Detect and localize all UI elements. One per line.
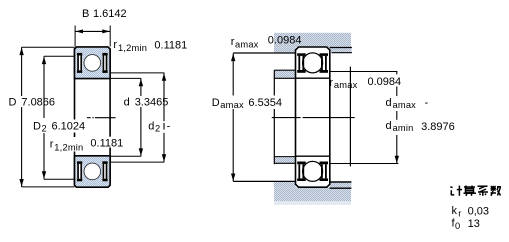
label r amax 0.0984 (middle) (329, 76, 401, 90)
shaft slab bottom (gray) (274, 187, 351, 201)
centerline (right diagram) (272, 117, 355, 119)
svg-text:7.0866: 7.0866 (21, 97, 55, 109)
svg-text:-: - (425, 97, 429, 109)
svg-text:r: r (329, 77, 333, 89)
label k_r 0,03 (452, 205, 490, 218)
svg-text:6.1024: 6.1024 (52, 121, 86, 133)
svg-text:0.0984: 0.0984 (268, 35, 302, 47)
shaft bottom shoulder right (330, 183, 352, 188)
housing shoulder right (330, 47, 352, 53)
dimension d extension lines (110, 78, 141, 156)
svg-text:13: 13 (468, 218, 480, 230)
svg-text:B: B (82, 8, 89, 20)
svg-text:k: k (452, 205, 458, 217)
svg-text:2: 2 (42, 124, 47, 134)
算 (464, 186, 477, 196)
svg-text:r: r (458, 208, 461, 218)
svg-text:amax: amax (235, 40, 259, 50)
svg-text:0: 0 (455, 221, 460, 231)
seal left, bottom section (left diagram) (77, 161, 83, 181)
seal left, top section (left diagram) (77, 53, 83, 73)
top cross-section filled (left diagram) (75, 47, 111, 79)
svg-text:6.5354: 6.5354 (248, 97, 282, 109)
dimension d2 extension lines (110, 73, 164, 162)
d_a extension line top (330, 71, 398, 73)
shaft left face line (273, 70, 275, 164)
svg-text:D: D (212, 97, 220, 109)
svg-text:0.1181: 0.1181 (154, 40, 187, 52)
svg-text:r: r (50, 139, 54, 151)
bottom cross-section filled (left diagram) (75, 156, 111, 187)
dimension Damax line with arrows (231, 53, 235, 181)
dimension d_a line with arrow (395, 72, 399, 164)
centerline (left diagram) (87, 117, 116, 119)
ball top (right diagram) (303, 53, 323, 73)
dimension B extension lines (75, 26, 110, 47)
dimension D line with arrows (19, 47, 23, 187)
seal right, bottom section (left diagram) (102, 161, 108, 181)
label Damax 6.5354 (212, 97, 282, 110)
label r1,2min 0.1181 (top) (113, 39, 187, 53)
label d amax - (386, 97, 429, 110)
label r1,2min 0.1181 (bottom) (49, 137, 124, 153)
label r amax 0.0984 (top left) (231, 35, 302, 50)
seal right, top section (right diagram) (320, 53, 329, 73)
svg-text:amax: amax (393, 100, 417, 110)
svg-text:1,2min: 1,2min (118, 43, 147, 53)
bearing outline (right diagram) (296, 47, 330, 187)
label 计算系数 (calculation factors, hand-drawn glyphs) (450, 186, 501, 196)
系 (478, 186, 489, 196)
svg-text:amax: amax (220, 100, 244, 110)
housing shoulder left bottom edge + Damax top extension line (233, 52, 296, 54)
svg-text:r: r (113, 39, 117, 51)
label D2 6.1024 (32, 120, 85, 134)
dimension d line with arrows (139, 78, 143, 156)
svg-text:2: 2 (155, 124, 160, 134)
seal right, bottom section (right diagram) (320, 162, 329, 182)
shaft shoulder bar top-left (gray) (274, 70, 295, 78)
svg-text:0.0984: 0.0984 (368, 76, 402, 88)
svg-text:1.6142: 1.6142 (93, 8, 127, 20)
svg-text:0.1181: 0.1181 (90, 137, 123, 149)
housing shoulder left (274, 47, 296, 53)
label d amin 3.8976 (386, 120, 455, 133)
label d 3.3465 (122, 96, 168, 109)
svg-text:d: d (386, 120, 392, 132)
svg-text:d: d (148, 121, 154, 133)
ball top (left diagram) (84, 55, 101, 72)
svg-text:D: D (9, 97, 17, 109)
ball bottom (right diagram) (303, 161, 323, 181)
shaft right face line (349, 67, 351, 167)
svg-text:0,03: 0,03 (468, 206, 489, 218)
svg-text:amin: amin (393, 123, 414, 133)
svg-text:d: d (124, 97, 130, 109)
数 (491, 186, 502, 196)
dimension d2 line with arrows (162, 73, 166, 162)
svg-text:1,2min: 1,2min (54, 143, 83, 153)
dimension D2 extension lines (44, 56, 75, 179)
seal left, bottom section (right diagram) (297, 162, 306, 182)
dimension D2 line with arrows (42, 56, 46, 179)
shaft shoulder bar bottom-left (gray) (274, 157, 295, 164)
seal left, top section (right diagram) (297, 53, 306, 73)
label f_0 13 (452, 218, 480, 231)
svg-text:-: - (167, 121, 171, 133)
seal right, top section (left diagram) (102, 53, 108, 73)
svg-text:3.3465: 3.3465 (135, 97, 169, 109)
d_a extension line bottom (330, 163, 399, 165)
housing slab (gray) (274, 33, 351, 47)
dimension D extension lines (22, 47, 75, 187)
svg-text:D: D (33, 121, 41, 133)
ball bottom (left diagram) (84, 163, 101, 180)
shaft bottom shoulder left (gray) + Damax bottom extension line (233, 181, 296, 187)
svg-text:amax: amax (334, 80, 358, 90)
bearing outer rectangle (left diagram) (75, 47, 111, 187)
svg-text:3.8976: 3.8976 (421, 121, 455, 133)
housing shoulder right edges (330, 48, 352, 53)
dimension B line with arrows (75, 29, 110, 33)
bottom section top edge (right bearing) (296, 155, 330, 157)
top section bottom edge (right bearing) (296, 77, 330, 79)
svg-text:d: d (386, 97, 392, 109)
label d2 - (147, 119, 171, 134)
计 (450, 186, 462, 196)
